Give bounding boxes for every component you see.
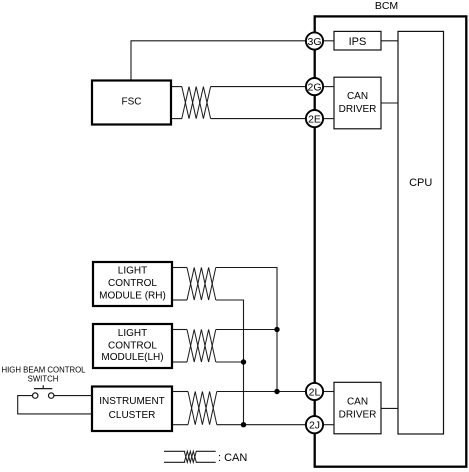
- junction dot 2J wire: [241, 422, 246, 427]
- wire pair to 2G: [211, 86, 306, 88]
- svg-text:3G: 3G: [307, 36, 321, 48]
- box LIGHT CONTROL MODULE (RH): [93, 262, 172, 306]
- svg-text:HIGH BEAM CONTROL: HIGH BEAM CONTROL: [1, 365, 86, 374]
- connector 2G: [306, 78, 323, 95]
- svg-text:2E: 2E: [308, 113, 321, 125]
- box CPU: [398, 31, 444, 434]
- connector 2E: [306, 110, 323, 127]
- svg-text:DRIVER: DRIVER: [339, 104, 377, 115]
- wire 2L to CAN DRIVER: [324, 391, 335, 393]
- box CAN DRIVER lower: [334, 382, 381, 434]
- wire LH CAN-L to node: [216, 361, 244, 363]
- wire RH CAN-L to node: [216, 300, 244, 425]
- svg-text:LIGHT: LIGHT: [118, 266, 147, 277]
- box CAN DRIVER upper: [334, 77, 381, 129]
- wire pair to 2E: [211, 118, 306, 120]
- wire cluster stub CAN-L: [172, 424, 188, 426]
- box IPS: [334, 31, 381, 50]
- wire switch to cluster upper: [54, 395, 92, 397]
- wire LCM LH stub CAN-H: [172, 329, 187, 331]
- switch S1 high beam: [33, 385, 54, 398]
- twisted pair CAN LCM RH: [187, 268, 216, 301]
- connector 2J: [306, 416, 323, 433]
- wire FSC top to 3G: [131, 41, 306, 81]
- connector 3G: [306, 32, 323, 49]
- box FSC: [92, 81, 171, 125]
- svg-text:IPS: IPS: [349, 36, 367, 48]
- wire LCM LH stub CAN-L: [172, 361, 187, 363]
- wire 3G to IPS: [324, 40, 335, 42]
- wire LCM RH stub CAN-L: [172, 299, 187, 301]
- svg-text:2G: 2G: [307, 81, 321, 93]
- wire cluster stub CAN-H: [172, 391, 188, 393]
- svg-text:: CAN: : CAN: [218, 452, 247, 464]
- box INSTRUMENT CLUSTER: [92, 387, 172, 432]
- svg-text:MODULE(LH): MODULE(LH): [101, 352, 163, 363]
- svg-text:CONTROL: CONTROL: [108, 341, 157, 352]
- twisted pair CAN FSC: [182, 87, 211, 119]
- svg-text:2J: 2J: [309, 420, 320, 432]
- junction dot LH CAN-H: [274, 327, 279, 332]
- twisted pair CAN cluster: [188, 392, 217, 425]
- wire CAN DRIVER to CPU: [381, 102, 398, 104]
- wire 2G to CAN DRIVER: [324, 86, 335, 88]
- svg-text:CAN: CAN: [347, 91, 368, 102]
- wire 2E to CAN DRIVER: [324, 118, 335, 120]
- svg-text:DRIVER: DRIVER: [339, 409, 377, 420]
- svg-text:CAN: CAN: [347, 396, 368, 407]
- wire cluster to 2J: [217, 424, 306, 426]
- BCM module outline: [315, 16, 467, 466]
- svg-text:INSTRUMENT: INSTRUMENT: [99, 396, 165, 407]
- wire FSC stub CAN-H: [171, 86, 182, 88]
- svg-text:2L: 2L: [309, 386, 321, 398]
- legend twisted pair symbol: [164, 451, 216, 462]
- box LIGHT CONTROL MODULE (LH): [93, 324, 172, 368]
- svg-text:FSC: FSC: [122, 97, 142, 108]
- svg-text:MODULE (RH): MODULE (RH): [99, 291, 166, 302]
- junction dot 2L wire: [274, 389, 279, 394]
- wire 2J to CAN DRIVER: [324, 424, 335, 426]
- connector 2L: [306, 383, 323, 400]
- wire switch return loop: [18, 396, 92, 414]
- wire LH CAN-H to node: [216, 329, 277, 331]
- twisted pair CAN LCM LH: [187, 330, 216, 363]
- svg-text:CONTROL: CONTROL: [108, 278, 157, 289]
- wire RH CAN-H to node: [216, 268, 277, 392]
- svg-text:LIGHT: LIGHT: [118, 328, 147, 339]
- wire LCM RH stub CAN-H: [172, 267, 187, 269]
- svg-text:CLUSTER: CLUSTER: [109, 410, 156, 421]
- svg-text:CPU: CPU: [409, 177, 432, 189]
- wire cluster to 2L: [217, 391, 306, 393]
- wire CAN DRIVER 2 to CPU: [381, 407, 398, 409]
- svg-text:SWITCH: SWITCH: [28, 375, 59, 384]
- junction dot LH CAN-L: [241, 359, 246, 364]
- svg-text:BCM: BCM: [375, 0, 398, 12]
- wire FSC stub CAN-L: [171, 118, 182, 120]
- wire IPS to CPU: [381, 40, 398, 42]
